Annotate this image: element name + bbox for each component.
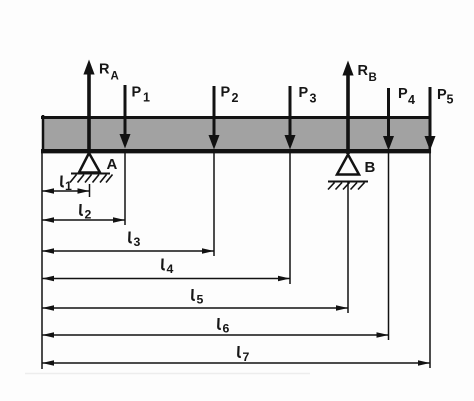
extension line P3 (289, 153, 291, 284)
load P5 arrow (425, 87, 436, 151)
label P2 (221, 85, 239, 106)
beam (41, 115, 431, 153)
extension line support B (347, 182, 349, 313)
svg-text:4: 4 (408, 93, 415, 107)
label l4 (162, 259, 173, 277)
label l5 (192, 289, 203, 307)
extension line P1 (124, 153, 126, 225)
label P1 (132, 85, 151, 105)
label P3 (299, 85, 317, 106)
svg-text:P: P (132, 85, 142, 101)
svg-text:P: P (398, 86, 408, 102)
svg-text:4: 4 (167, 262, 174, 276)
svg-text:B: B (369, 72, 377, 84)
dimension l4 (42, 276, 290, 281)
svg-text:B: B (365, 159, 376, 176)
svg-text:R: R (358, 63, 369, 79)
dimension l1 (42, 188, 90, 193)
dimension l2 (42, 217, 125, 222)
load P3 arrow (285, 86, 296, 150)
svg-text:2: 2 (232, 91, 239, 105)
faint scan streak (25, 373, 310, 375)
svg-text:7: 7 (243, 350, 250, 364)
svg-text:6: 6 (223, 322, 230, 336)
dimension l7 (42, 360, 430, 365)
svg-text:P: P (221, 85, 231, 101)
load P4 arrow (383, 88, 394, 151)
label R_B (358, 63, 377, 84)
label l7 (238, 346, 249, 364)
dimension l5 (42, 305, 348, 310)
support A (pin) (70, 153, 113, 183)
dimension l6 (42, 332, 389, 337)
label l1 (61, 176, 72, 194)
load P1 arrow (120, 85, 131, 149)
label R_A (99, 62, 119, 83)
extension line P4 (388, 153, 390, 340)
dimension l3 (42, 248, 214, 253)
svg-text:P: P (299, 85, 309, 101)
extension line support A (89, 184, 91, 197)
label l6 (218, 318, 229, 336)
svg-text:A: A (107, 156, 118, 173)
svg-text:5: 5 (197, 293, 204, 307)
reaction R_A arrow (83, 60, 94, 154)
reaction R_B arrow (342, 61, 353, 155)
label l2 (80, 204, 91, 222)
svg-text:1: 1 (65, 179, 72, 193)
label l3 (129, 232, 140, 250)
extension line P5 / right end (429, 153, 431, 368)
svg-text:5: 5 (447, 93, 454, 107)
extension line P2 (213, 153, 215, 256)
svg-text:A: A (111, 71, 119, 83)
support B (roller) (328, 155, 368, 190)
label P5 (437, 87, 454, 107)
svg-text:3: 3 (310, 92, 317, 106)
load P2 arrow (209, 86, 220, 150)
svg-text:P: P (437, 87, 447, 103)
label P4 (398, 86, 415, 107)
svg-text:3: 3 (134, 235, 141, 249)
svg-text:2: 2 (85, 208, 92, 222)
svg-text:R: R (99, 62, 110, 78)
extension line left end (41, 153, 43, 369)
svg-text:1: 1 (143, 91, 150, 105)
